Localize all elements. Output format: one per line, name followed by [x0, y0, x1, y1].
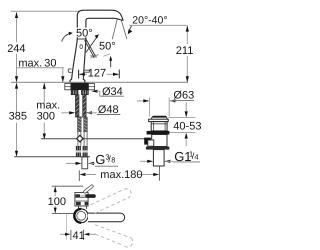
- svg-text:G: G: [95, 152, 105, 167]
- drain tailpipe: [153, 150, 164, 166]
- svg-text:Ø48: Ø48: [98, 104, 119, 116]
- temperature dot on body: [80, 45, 83, 49]
- drain: dimension Ø63: [137, 90, 194, 117]
- dimension 385: [9, 83, 27, 157]
- drain actuator: [144, 138, 151, 145]
- bottom view: solid lever: [88, 213, 125, 222]
- svg-text:41: 41: [73, 230, 85, 242]
- svg-text:100: 100: [48, 196, 66, 208]
- G3/8 thread tail: [82, 157, 88, 169]
- dimension max.300: [36, 83, 60, 140]
- svg-text:8: 8: [111, 156, 115, 165]
- flexible hoses: [78, 117, 82, 131]
- drain seal ring: [147, 131, 170, 135]
- svg-text:211: 211: [176, 45, 194, 57]
- label G3/8 with arrows: [66, 152, 118, 167]
- drain upper body: [151, 122, 167, 131]
- dimension max.180: [79, 166, 159, 181]
- bottom view: cartridge head: [75, 193, 88, 207]
- stream angle V lines: [112, 20, 117, 40]
- label Ø48 with arrows: [62, 104, 121, 116]
- hose tails to connectors: [78, 132, 87, 146]
- curved rotation arrow left of 50 deg label: [62, 33, 71, 41]
- dimension 211: [176, 26, 194, 83]
- svg-text:Ø34: Ø34: [102, 86, 123, 98]
- faucet spout outline: [77, 10, 123, 39]
- svg-text:40-53: 40-53: [173, 120, 201, 132]
- wire: pop-up rod line: [41, 138, 147, 140]
- pull-rod stub right of body: [84, 70, 90, 72]
- svg-text:50°: 50°: [76, 27, 93, 39]
- pull-rod knob left of body: [68, 69, 71, 72]
- bottom view: dashed lever down position: [95, 225, 133, 247]
- svg-text:max.180: max.180: [100, 169, 142, 181]
- drain lower body: [152, 135, 167, 147]
- svg-text:4: 4: [194, 153, 198, 162]
- svg-text:20°-40°: 20°-40°: [132, 14, 167, 26]
- bottom view: body circle: [74, 209, 88, 223]
- svg-text:385: 385: [9, 111, 27, 123]
- svg-text:300: 300: [37, 111, 55, 123]
- dimension 40-53: [169, 102, 202, 146]
- washer wing right: [89, 84, 95, 90]
- wire: hose-end reference line: [14, 156, 90, 158]
- label Ø34 with leader: [92, 86, 125, 98]
- svg-text:127: 127: [88, 68, 106, 80]
- bottom view: dashed lever up position: [91, 189, 131, 214]
- drain plug dome: [151, 116, 167, 119]
- label G1 1/4 with arrows: [140, 149, 200, 164]
- washer wing left: [65, 84, 71, 90]
- lever swing arrow (50 deg): [86, 36, 98, 53]
- mounting nut: [71, 90, 78, 95]
- hose connector left: [76, 146, 81, 157]
- lever stick (closed position): [85, 40, 96, 58]
- wire: deck reference line: [11, 81, 188, 83]
- hose connector right: [83, 146, 88, 157]
- bottom view: neck: [79, 206, 87, 209]
- drain bottom flange: [146, 147, 170, 150]
- dimension 41: [60, 214, 96, 242]
- bottom view: lever knob raised outline: [83, 184, 94, 193]
- bottom view: lever bar dark: [86, 194, 96, 198]
- threaded shank walls: [75, 95, 79, 117]
- dimension 100: [48, 187, 66, 214]
- svg-text:50°: 50°: [99, 41, 116, 53]
- rod joint node on hose: [77, 135, 84, 142]
- dimension max.30: [17, 57, 64, 82]
- svg-text:max.: max.: [36, 99, 60, 111]
- wire: spout top extension line: [11, 10, 80, 12]
- label 50 deg (upper): [75, 28, 94, 38]
- svg-text:Ø63: Ø63: [173, 90, 194, 102]
- faucet body outline: [70, 39, 86, 83]
- svg-text:244: 244: [7, 43, 25, 55]
- base clamp below deck: [71, 83, 89, 90]
- bottom view: top reference line: [52, 185, 84, 187]
- dimension 127: [79, 68, 120, 80]
- dimension 244: [7, 12, 25, 82]
- bottom view: axis reference line: [52, 212, 75, 214]
- drain flange: [149, 119, 169, 121]
